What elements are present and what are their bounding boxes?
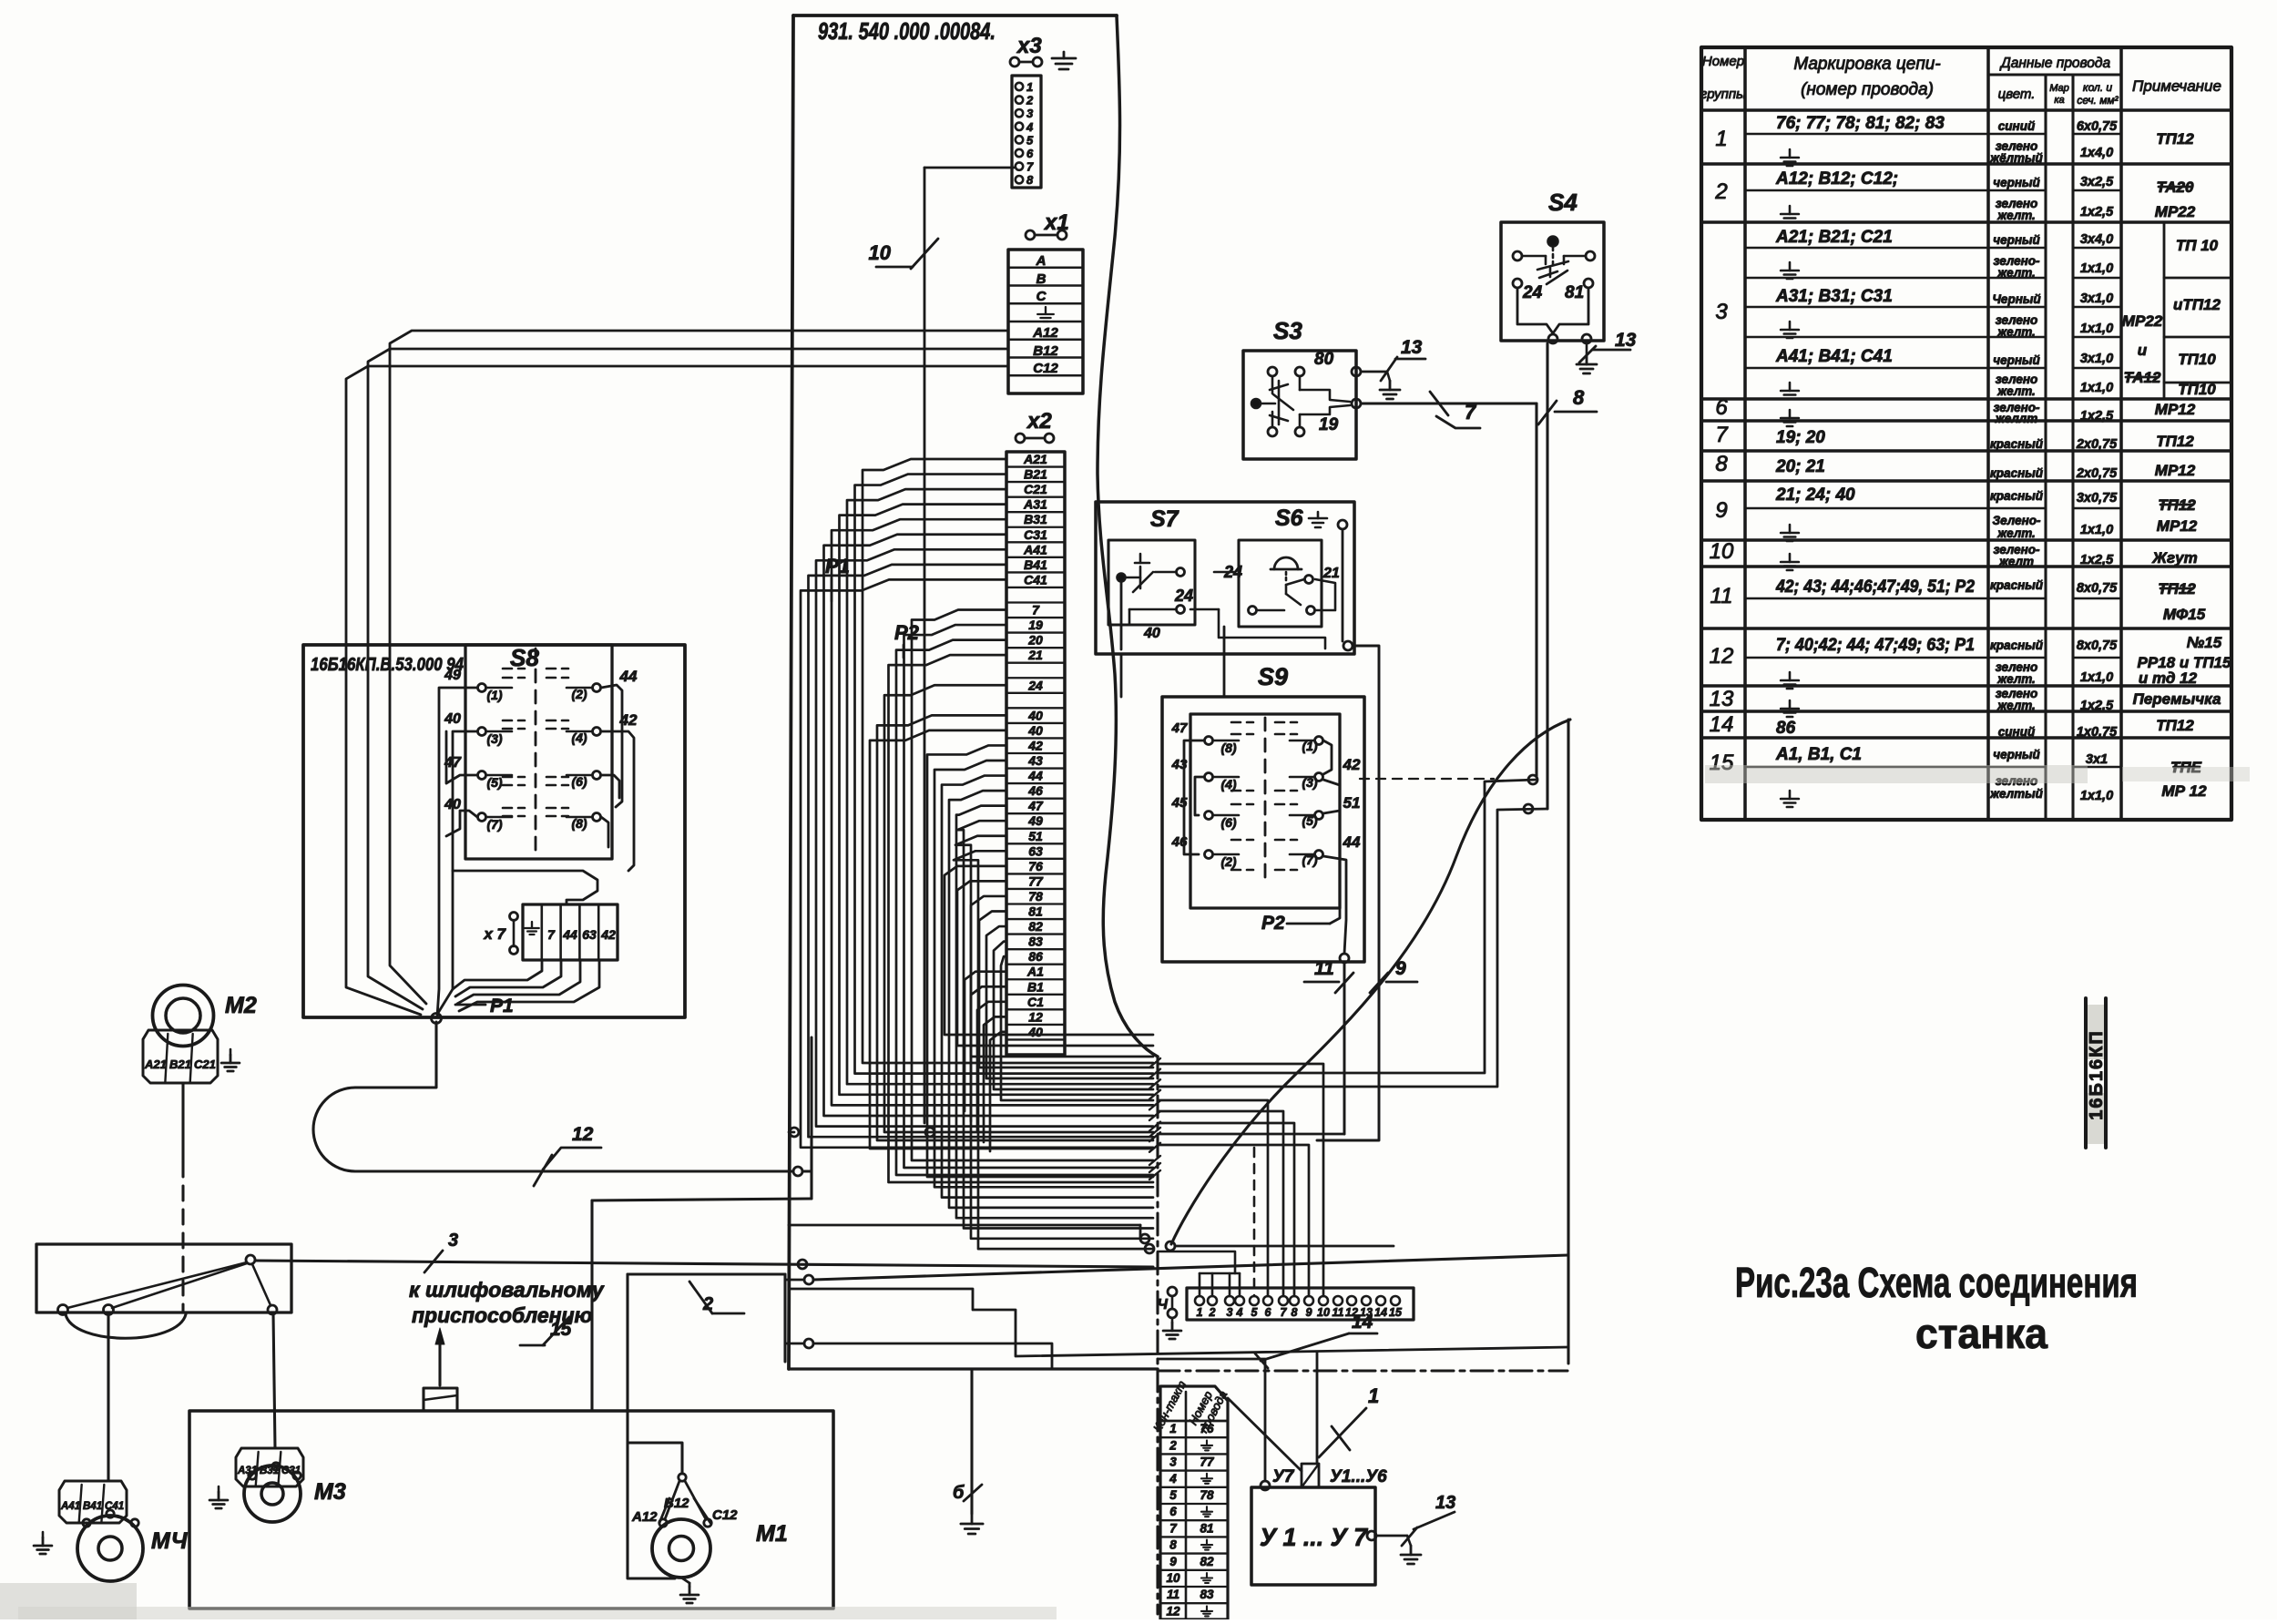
svg-text:13: 13 — [1435, 1493, 1455, 1513]
wire 11 from S9 — [1158, 958, 1353, 1134]
svg-text:13: 13 — [1401, 337, 1423, 358]
svg-text:А12: А12 — [631, 1509, 658, 1525]
svg-text:Черный: Черный — [1992, 292, 2041, 306]
wire bundle X2 24,40,40 — [870, 685, 1153, 1149]
svg-text:Номер: Номер — [1702, 54, 1744, 69]
svg-text:МР12: МР12 — [2155, 401, 2196, 418]
solenoid block У1...У7 — [1251, 1487, 1375, 1585]
wire from X1 C12 — [346, 366, 1008, 645]
svg-text:4: 4 — [1169, 1472, 1177, 1486]
svg-text:15: 15 — [550, 1319, 572, 1340]
svg-text:А21: А21 — [144, 1057, 167, 1071]
svg-text:и: и — [2138, 342, 2148, 359]
svg-text:Р2: Р2 — [894, 621, 920, 644]
svg-text:(8): (8) — [571, 816, 587, 831]
wire bundle X2 А21..С41 — [801, 459, 1153, 1148]
wire to M4 — [107, 1314, 109, 1481]
svg-text:В12: В12 — [1033, 343, 1058, 359]
svg-text:8: 8 — [1292, 1306, 1298, 1319]
svg-text:желт.: желт. — [1996, 266, 2036, 280]
svg-text:(1): (1) — [486, 688, 502, 702]
svg-text:40: 40 — [1143, 626, 1160, 641]
svg-text:44: 44 — [1343, 833, 1361, 851]
svg-text:Маркировка цепи-: Маркировка цепи- — [1793, 55, 1940, 74]
switch S8 — [444, 644, 638, 859]
svg-text:Данные провода: Данные провода — [1999, 56, 2111, 71]
switch S7 box — [1108, 540, 1195, 641]
svg-text:красный: красный — [1990, 466, 2044, 480]
svg-text:6: 6 — [1715, 395, 1728, 420]
motor M1 — [631, 1474, 788, 1578]
svg-text:21: 21 — [1322, 566, 1340, 581]
wire to X3 pin 7 — [924, 167, 1014, 169]
ground at M4 — [34, 1532, 52, 1554]
motor M3 — [244, 1463, 346, 1522]
ground б — [953, 1371, 983, 1534]
wire from X1 A12 — [390, 331, 1008, 645]
node P1 — [825, 555, 850, 601]
svg-text:80: 80 — [1314, 350, 1334, 369]
svg-text:S4: S4 — [1548, 189, 1578, 216]
svg-text:С41: С41 — [1024, 572, 1047, 587]
svg-text:М2: М2 — [225, 993, 257, 1018]
S9 internal wiring — [1184, 741, 1346, 954]
svg-text:42; 43; 44;46;47;49, 51; Р2: 42; 43; 44;46;47;49, 51; Р2 — [1775, 577, 1975, 597]
S7/S6 panel wiring and pins — [1121, 520, 1353, 697]
enclosure 16Б16КП box — [303, 645, 685, 1017]
scan smudges (decorative) — [0, 1583, 137, 1619]
svg-text:Жгут: Жгут — [2151, 549, 2197, 567]
svg-text:А31: А31 — [237, 1466, 257, 1476]
panel with S7 and S6 — [1096, 502, 1354, 654]
svg-text:(5): (5) — [486, 775, 502, 790]
connector X3 terminal strip — [1012, 76, 1041, 188]
svg-text:40: 40 — [1027, 1025, 1043, 1039]
wire bundle X2 76..86 — [944, 866, 1153, 1100]
svg-text:9: 9 — [1169, 1555, 1177, 1568]
connector X1 block — [1008, 250, 1083, 393]
table column: notes — [2122, 130, 2231, 800]
wires trunk to strip contacts — [1158, 1064, 1323, 1296]
svg-text:7: 7 — [1281, 1306, 1288, 1319]
faint dashed wire 42 — [1360, 778, 1494, 780]
wire 14 callout — [1255, 1312, 1377, 1368]
svg-text:черный: черный — [1993, 353, 2040, 367]
svg-text:(номер провода): (номер провода) — [1801, 80, 1934, 99]
svg-text:1: 1 — [1026, 80, 1033, 94]
svg-text:желлт: желлт — [1995, 412, 2037, 425]
svg-text:1x2,5: 1x2,5 — [2080, 699, 2114, 713]
svg-text:1x1,0: 1x1,0 — [2080, 322, 2113, 336]
svg-text:группы: группы — [1700, 87, 1746, 102]
diagonal wire into plug — [1228, 1398, 1302, 1471]
svg-text:Рис.23а Схема соединения: Рис.23а Схема соединения — [1735, 1259, 2138, 1306]
svg-text:кол. и: кол. и — [2083, 81, 2113, 94]
svg-text:40: 40 — [444, 711, 461, 727]
comb bracket for contacts 1-4 — [1158, 1251, 1240, 1296]
svg-text:У7: У7 — [1272, 1467, 1295, 1486]
table body rows — [1701, 134, 2231, 767]
wire 9 from S6 panel — [1317, 646, 1417, 1140]
svg-text:ТП12: ТП12 — [2156, 717, 2194, 734]
svg-text:ТП12: ТП12 — [2156, 130, 2194, 148]
enclosure box 931.540.000.00084 — [789, 15, 1158, 1369]
svg-text:А21; В21; С21: А21; В21; С21 — [1775, 228, 1893, 247]
svg-text:21: 21 — [1027, 648, 1043, 662]
svg-text:x2: x2 — [1026, 409, 1052, 434]
svg-text:(8): (8) — [1220, 741, 1236, 755]
svg-text:1: 1 — [1197, 1306, 1203, 1319]
figure caption — [1735, 1259, 2138, 1357]
wire 8 from S4 down — [1158, 343, 1597, 1087]
svg-text:20; 21: 20; 21 — [1775, 457, 1825, 476]
svg-text:82: 82 — [1028, 919, 1043, 934]
svg-text:А41: А41 — [60, 1501, 80, 1512]
svg-text:черный: черный — [1993, 748, 2040, 761]
svg-text:станка: станка — [1915, 1310, 2047, 1357]
svg-text:2: 2 — [702, 1294, 713, 1314]
svg-text:10: 10 — [1166, 1571, 1180, 1585]
svg-text:Р1: Р1 — [490, 996, 514, 1016]
svg-text:5: 5 — [1169, 1488, 1177, 1502]
wire 15 label — [520, 1317, 572, 1345]
svg-text:(6): (6) — [1220, 815, 1236, 830]
svg-text:12: 12 — [1028, 1009, 1043, 1024]
svg-text:красный: красный — [1990, 638, 2044, 652]
motor M2 — [153, 986, 257, 1047]
svg-text:47: 47 — [1171, 720, 1188, 736]
wire bundle X2 7,19,20,21 (P2) — [889, 610, 1154, 1183]
svg-text:7: 7 — [1169, 1521, 1178, 1535]
svg-text:7: 7 — [1026, 160, 1034, 174]
svg-text:86: 86 — [1776, 719, 1796, 738]
svg-text:А12; В12; С12;: А12; В12; С12; — [1775, 169, 1898, 189]
table column: group numbers — [1710, 127, 1734, 775]
svg-text:3x1,0: 3x1,0 — [2080, 352, 2113, 366]
svg-text:9: 9 — [1306, 1306, 1312, 1319]
wire 12 slash — [534, 1124, 601, 1186]
connector plug У7/У1...У6 — [1261, 1464, 1387, 1490]
svg-text:3: 3 — [1026, 107, 1034, 120]
svg-text:Р1: Р1 — [825, 555, 850, 577]
svg-text:иТП12: иТП12 — [2173, 296, 2221, 313]
svg-text:(6): (6) — [571, 774, 587, 789]
svg-text:931. 540 .000 .00084.: 931. 540 .000 .00084. — [818, 17, 996, 45]
svg-text:А21: А21 — [1023, 452, 1047, 466]
svg-text:В: В — [1036, 271, 1047, 287]
svg-text:x 7: x 7 — [483, 925, 506, 943]
svg-text:(2): (2) — [1220, 854, 1236, 869]
svg-text:8: 8 — [1169, 1538, 1177, 1552]
svg-text:24: 24 — [1174, 587, 1193, 605]
svg-text:А41: А41 — [1023, 542, 1047, 557]
svg-text:желтый: желтый — [1989, 787, 2044, 801]
svg-text:желт.: желт. — [1996, 526, 2036, 540]
svg-text:МР22: МР22 — [2122, 312, 2163, 330]
svg-text:12: 12 — [1710, 644, 1734, 669]
svg-text:11: 11 — [1167, 1588, 1179, 1601]
junction at box bottom — [432, 1014, 442, 1024]
svg-text:С12: С12 — [712, 1507, 738, 1523]
svg-text:3x1,0: 3x1,0 — [2080, 291, 2113, 306]
svg-text:83: 83 — [1200, 1588, 1214, 1601]
staircase to bottom table — [789, 1289, 1568, 1464]
svg-text:S3: S3 — [1273, 317, 1302, 344]
svg-text:1: 1 — [1368, 1384, 1379, 1407]
S8 right side wiring — [601, 685, 634, 871]
wires inside enclosure from X1 — [346, 645, 426, 1015]
svg-text:11: 11 — [1314, 958, 1334, 979]
svg-text:(7): (7) — [486, 817, 502, 832]
svg-text:А31: А31 — [1023, 497, 1047, 512]
wire 3 to grinding attachment — [255, 1231, 1153, 1272]
svg-text:3: 3 — [1227, 1306, 1233, 1319]
svg-text:3: 3 — [1169, 1455, 1177, 1469]
svg-text:8x0,75: 8x0,75 — [2077, 581, 2118, 596]
svg-text:5: 5 — [1251, 1306, 1259, 1319]
svg-text:и тд 12: и тд 12 — [2139, 669, 2198, 687]
switch S3 — [1243, 317, 1361, 459]
ground 13 at У box — [1367, 1493, 1455, 1564]
wiring table frame — [1701, 47, 2231, 820]
svg-text:7; 40;42; 44; 47;49; 63; Р1: 7; 40;42; 44; 47;49; 63; Р1 — [1776, 636, 1975, 655]
svg-text:49: 49 — [1027, 813, 1043, 828]
svg-text:14: 14 — [1710, 712, 1734, 737]
svg-text:1: 1 — [1169, 1422, 1177, 1435]
svg-text:В21: В21 — [169, 1057, 191, 1071]
svg-text:63: 63 — [582, 927, 597, 942]
node P2 at S9 — [1261, 908, 1340, 934]
switch S9 — [1162, 663, 1364, 962]
svg-text:1x2,5: 1x2,5 — [2080, 553, 2114, 567]
ground at X3 — [1052, 52, 1076, 69]
svg-text:3x1: 3x1 — [2086, 752, 2108, 767]
svg-text:С21: С21 — [1024, 482, 1047, 496]
svg-text:19; 20: 19; 20 — [1776, 428, 1825, 447]
table column: circuit markings — [1775, 114, 1975, 807]
svg-text:(2): (2) — [571, 687, 587, 701]
svg-text:МЧ: МЧ — [151, 1528, 189, 1554]
svg-text:11: 11 — [1710, 584, 1733, 608]
svg-text:x3: x3 — [1016, 34, 1042, 58]
svg-text:2x0,75: 2x0,75 — [2076, 437, 2118, 452]
svg-text:3x2,5: 3x2,5 — [2080, 175, 2114, 189]
svg-text:желт.: желт. — [1996, 384, 2036, 398]
svg-text:7: 7 — [547, 927, 556, 942]
svg-text:В41: В41 — [1024, 557, 1047, 572]
lamp switch S6 box — [1223, 540, 1340, 627]
svg-text:Зелено-: Зелено- — [1993, 514, 2041, 527]
svg-text:цвет.: цвет. — [1998, 87, 2036, 102]
svg-text:черный: черный — [1993, 233, 2040, 247]
wire 7 S3 to trunk — [1158, 392, 1537, 1073]
svg-text:43: 43 — [1027, 753, 1043, 768]
svg-text:78: 78 — [1028, 889, 1043, 904]
table column: wire colours — [1989, 119, 2044, 801]
svg-text:47: 47 — [1027, 799, 1044, 813]
svg-text:44: 44 — [1027, 769, 1043, 783]
svg-text:2: 2 — [1714, 179, 1727, 204]
svg-text:ТП12: ТП12 — [2156, 433, 2194, 450]
svg-text:63: 63 — [1028, 843, 1043, 858]
node P2 — [894, 621, 920, 658]
svg-text:А1: А1 — [1026, 965, 1044, 979]
svg-text:14: 14 — [1352, 1312, 1373, 1333]
svg-text:желт.: желт. — [1996, 699, 2036, 712]
svg-text:6: 6 — [1169, 1505, 1177, 1518]
svg-text:44: 44 — [619, 668, 638, 685]
svg-text:С41: С41 — [105, 1501, 124, 1512]
ground at M3 — [209, 1486, 228, 1508]
svg-text:3: 3 — [1715, 300, 1728, 324]
svg-text:6: 6 — [1265, 1306, 1272, 1319]
wire M2 down — [181, 1083, 184, 1312]
junction at curve end — [1166, 1241, 1175, 1251]
svg-text:51: 51 — [1028, 829, 1043, 843]
svg-text:ТП10: ТП10 — [2178, 351, 2216, 368]
svg-text:10: 10 — [1710, 539, 1734, 564]
wire loop around M1 — [628, 1274, 785, 1578]
svg-text:49: 49 — [444, 668, 461, 683]
svg-text:77: 77 — [1028, 873, 1044, 888]
svg-text:81: 81 — [1565, 283, 1584, 302]
jumper Ч with ground — [1158, 1287, 1181, 1339]
S9 contacts — [1171, 718, 1361, 879]
svg-text:20: 20 — [1027, 633, 1043, 648]
junction fan in distribution box — [58, 1255, 278, 1315]
svg-text:7: 7 — [1032, 603, 1040, 618]
vertical stamp 16Б16КП — [2086, 998, 2107, 1148]
svg-text:А1, В1, С1: А1, В1, С1 — [1775, 745, 1862, 764]
motor M3 terminal block А31 В31 С31 — [236, 1448, 303, 1486]
svg-text:42: 42 — [1027, 738, 1043, 752]
svg-text:81: 81 — [1028, 904, 1043, 919]
dashed trunk line — [1156, 1057, 1159, 1614]
vertical feeder x=650 — [592, 1199, 812, 1411]
svg-text:8x0,75: 8x0,75 — [2077, 638, 2118, 653]
X7 outgoing wires — [453, 960, 599, 1011]
svg-text:к шлифовальному: к шлифовальному — [409, 1278, 605, 1302]
wire trunk 1345 with junction — [789, 1225, 1140, 1237]
svg-text:12: 12 — [572, 1124, 594, 1145]
svg-text:44: 44 — [562, 927, 577, 942]
svg-text:М3: М3 — [314, 1479, 346, 1505]
svg-text:С31: С31 — [281, 1466, 301, 1476]
svg-text:6: 6 — [1026, 147, 1034, 160]
svg-text:С1: С1 — [1027, 995, 1044, 1009]
svg-text:сеч. мм²: сеч. мм² — [2077, 94, 2119, 107]
svg-text:7: 7 — [1715, 423, 1729, 447]
svg-text:3x0,75: 3x0,75 — [2077, 491, 2118, 506]
svg-text:№15: №15 — [2187, 634, 2222, 651]
svg-text:В31: В31 — [1024, 512, 1047, 526]
svg-text:40: 40 — [1027, 723, 1043, 738]
svg-text:В41: В41 — [83, 1501, 102, 1512]
svg-text:13: 13 — [1615, 330, 1637, 351]
svg-text:4: 4 — [1026, 120, 1034, 134]
switch S4 — [1501, 189, 1604, 343]
svg-text:А41; В41; С41: А41; В41; С41 — [1775, 347, 1893, 366]
ground at M1 — [680, 1578, 699, 1603]
svg-text:14: 14 — [1374, 1306, 1387, 1319]
distribution box left — [36, 1244, 291, 1312]
wire lower 1475 — [785, 1339, 1052, 1369]
fuse on feeder — [424, 1388, 457, 1411]
svg-text:10: 10 — [869, 241, 892, 264]
svg-text:Р2: Р2 — [1261, 913, 1285, 934]
motor M4 — [77, 1510, 189, 1581]
svg-text:76: 76 — [1200, 1422, 1214, 1435]
svg-text:1x1,0: 1x1,0 — [2080, 261, 2113, 276]
svg-text:(3): (3) — [486, 731, 502, 746]
svg-text:ка: ка — [2054, 95, 2064, 106]
svg-text:8: 8 — [1715, 452, 1728, 476]
ground 13 at S4 — [1577, 330, 1637, 373]
svg-text:желт: желт — [1998, 555, 2034, 568]
bus end ticks — [1149, 1058, 1160, 1180]
svg-text:42: 42 — [1343, 756, 1361, 773]
svg-text:19: 19 — [1028, 618, 1043, 632]
svg-text:ТП 10: ТП 10 — [2176, 237, 2219, 254]
svg-text:синий: синий — [1998, 119, 2036, 133]
svg-text:2: 2 — [1209, 1306, 1216, 1319]
svg-text:19: 19 — [1319, 415, 1339, 434]
svg-text:9: 9 — [1395, 958, 1406, 979]
svg-text:16Б16КП: 16Б16КП — [2087, 1029, 2107, 1119]
svg-text:1x2,5: 1x2,5 — [2080, 409, 2114, 424]
svg-text:желт.: желт. — [1996, 325, 2036, 339]
svg-text:С21: С21 — [194, 1057, 216, 1071]
svg-text:12: 12 — [1166, 1604, 1180, 1618]
svg-text:82: 82 — [1200, 1555, 1214, 1568]
svg-text:86: 86 — [1028, 949, 1043, 964]
svg-text:46: 46 — [1027, 783, 1043, 798]
svg-text:(4): (4) — [1220, 777, 1236, 792]
table column: qty and section — [2076, 119, 2118, 803]
svg-text:(4): (4) — [571, 730, 587, 745]
svg-text:83: 83 — [1028, 935, 1043, 949]
S9 bottom pin — [1340, 954, 1349, 963]
wire 1 callout — [1319, 1384, 1379, 1457]
svg-text:жёлтый: жёлтый — [1989, 151, 2043, 165]
svg-text:МФ15: МФ15 — [2163, 606, 2206, 623]
svg-text:1x1,0: 1x1,0 — [2080, 381, 2113, 395]
svg-text:красный: красный — [1990, 489, 2044, 503]
svg-text:8: 8 — [1573, 386, 1585, 409]
svg-text:4: 4 — [1236, 1306, 1243, 1319]
svg-text:76; 77; 78; 81; 82; 83: 76; 77; 78; 81; 82; 83 — [1776, 114, 1945, 133]
svg-text:51: 51 — [1343, 794, 1361, 812]
connector X2 block — [1006, 452, 1065, 1055]
svg-text:S9: S9 — [1258, 663, 1288, 690]
svg-text:1: 1 — [1715, 127, 1727, 151]
svg-text:красный: красный — [1990, 437, 2044, 451]
svg-text:С: С — [1036, 289, 1047, 304]
svg-text:А12: А12 — [1032, 325, 1058, 341]
svg-text:черный: черный — [1993, 176, 2040, 189]
svg-text:1x1,0: 1x1,0 — [2080, 670, 2113, 685]
wire from X1 B12 — [368, 349, 1008, 645]
arrow up feeder — [435, 1328, 444, 1385]
table header labels — [1700, 54, 2221, 107]
wire to У7 coil — [1158, 1359, 1265, 1481]
wire bundle X2 А1,В1,С1,12,40 — [965, 972, 1006, 1151]
terminal block X7 — [483, 904, 618, 960]
svg-text:40: 40 — [1027, 708, 1043, 722]
vertical stub box edge lower — [783, 1274, 786, 1362]
svg-text:77: 77 — [1200, 1455, 1215, 1469]
wire 10 from X3 pin7 — [869, 168, 938, 1123]
